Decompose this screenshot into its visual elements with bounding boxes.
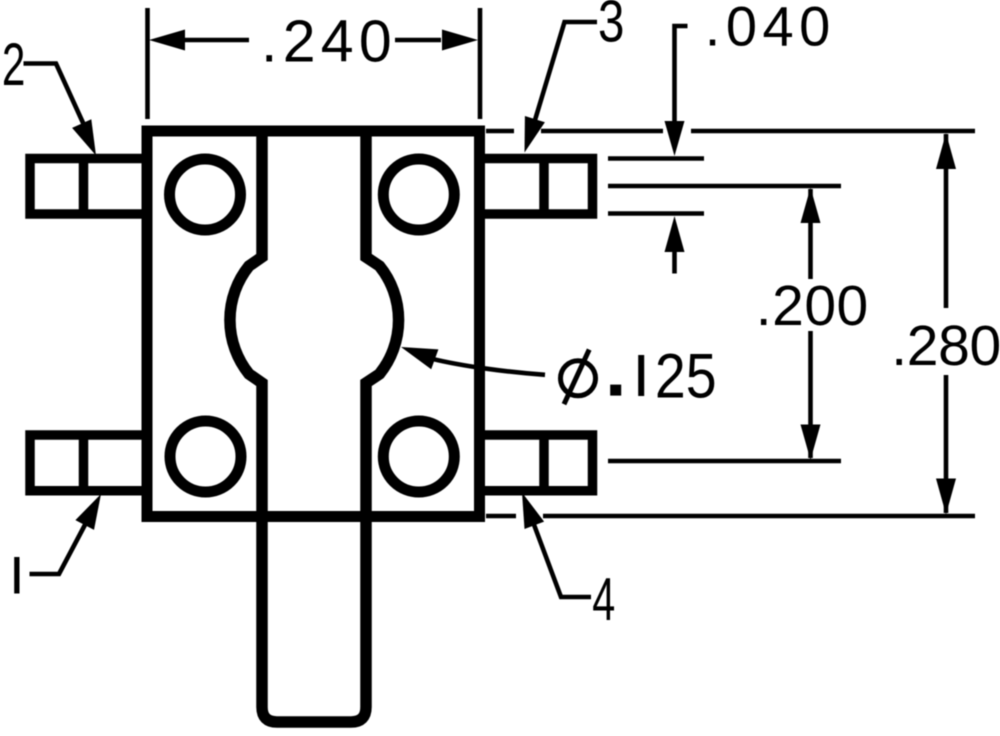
svg-text:.280: .280 [891,314,1000,378]
svg-text:25: 25 [655,342,717,412]
svg-text:3: 3 [598,0,624,55]
svg-text:.040: .040 [705,0,836,58]
svg-text:.240: .240 [261,9,397,75]
svg-text:4: 4 [592,566,615,633]
svg-text:2: 2 [2,31,26,98]
svg-text:.200: .200 [756,274,869,338]
